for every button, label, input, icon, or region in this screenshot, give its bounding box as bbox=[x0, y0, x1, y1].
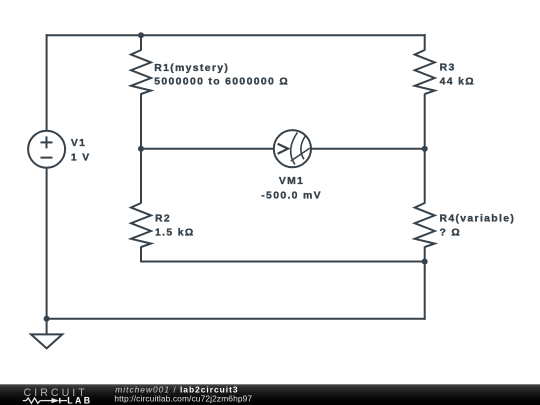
node junction ground bbox=[44, 316, 50, 322]
wire bottom rail bbox=[46, 318, 426, 320]
svg-text:5000000 to 6000000 Ω: 5000000 to 6000000 Ω bbox=[154, 77, 289, 88]
svg-text:R2: R2 bbox=[155, 213, 171, 224]
wire middle left bbox=[140, 148, 274, 150]
wire R1 top lead bbox=[140, 34, 142, 50]
wire R3 top lead bbox=[424, 34, 426, 50]
wire R4 to bottom rail bbox=[424, 262, 426, 320]
svg-text:R3: R3 bbox=[440, 63, 456, 74]
wire R1 bottom lead bbox=[140, 94, 142, 150]
resistor R4 bbox=[415, 203, 435, 247]
node junction middle left bbox=[138, 146, 144, 152]
wire middle right bbox=[311, 148, 426, 150]
svg-text:44 kΩ: 44 kΩ bbox=[440, 76, 475, 87]
resistor R2 bbox=[131, 203, 151, 247]
wire top rail bbox=[46, 34, 426, 36]
wire R2 bottom lead bbox=[140, 247, 142, 263]
svg-text:1 V: 1 V bbox=[71, 153, 91, 164]
voltage source V1 bbox=[28, 131, 65, 168]
wire R4 top lead bbox=[424, 148, 426, 204]
node junction middle right bbox=[422, 146, 428, 152]
wire left rail upper bbox=[46, 34, 48, 131]
resistor R1 bbox=[131, 50, 151, 94]
node junction bottom right bbox=[422, 259, 428, 265]
logo diode triangle bbox=[52, 398, 60, 403]
logo schematic line with resistor and diode bbox=[23, 398, 67, 403]
node junction R1 top bbox=[138, 32, 144, 38]
footer bar bbox=[0, 384, 540, 405]
svg-text:LAB: LAB bbox=[67, 396, 92, 405]
svg-text:V1: V1 bbox=[71, 138, 86, 149]
wire R4 bottom lead bbox=[424, 247, 426, 263]
voltmeter VM1 bbox=[274, 130, 311, 167]
svg-text:R4(variable): R4(variable) bbox=[440, 213, 516, 224]
svg-text:? Ω: ? Ω bbox=[440, 228, 462, 239]
wire left rail lower bbox=[46, 168, 48, 320]
resistor R3 bbox=[415, 50, 435, 94]
svg-text:-500.0 mV: -500.0 mV bbox=[261, 191, 322, 202]
wire R3 bottom lead bbox=[424, 94, 426, 150]
svg-text:R1(mystery): R1(mystery) bbox=[154, 63, 229, 74]
svg-text:VM1: VM1 bbox=[279, 176, 304, 187]
ground bbox=[46, 319, 48, 335]
wire R2 top lead bbox=[140, 148, 142, 204]
svg-text:http://circuitlab.com/cu72j2zm: http://circuitlab.com/cu72j2zm6hp97 bbox=[114, 394, 252, 404]
svg-text:1.5 kΩ: 1.5 kΩ bbox=[155, 228, 195, 239]
wire R2 bottom horizontal bbox=[140, 261, 426, 263]
